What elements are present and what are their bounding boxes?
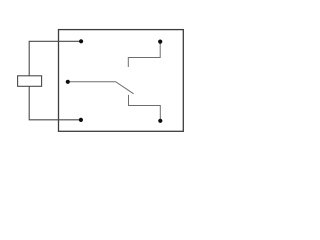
wire coil bottom to pin 2 (29, 86, 81, 120)
terminal dot pin 4 (158, 40, 162, 44)
switch lever from common (68, 82, 134, 94)
terminal dot pin 2 (79, 118, 83, 122)
coil (18, 76, 42, 87)
wire NC contact from pin 4 (128, 42, 160, 67)
terminal dot pin 5 (158, 119, 162, 123)
wire coil top to pin 1 (29, 41, 81, 76)
wire NO contact to pin 5 (129, 95, 161, 120)
relay body outline (59, 30, 184, 132)
terminal dot pin 1 (79, 39, 83, 43)
terminal dot common (66, 80, 70, 84)
